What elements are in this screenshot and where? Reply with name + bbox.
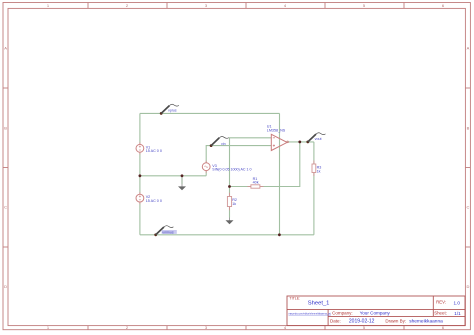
wire op-amp minus input to feedback node [230,138,272,187]
svg-text:1.0: 1.0 [454,300,461,305]
wire node to R1 left [230,186,251,188]
svg-text:1k: 1k [232,202,236,206]
probe vminus [154,226,173,237]
svg-text:3: 3 [205,3,208,8]
resistor R3 [312,161,316,177]
probe vin [210,136,229,147]
svg-text:C: C [4,205,7,210]
wire top rail net vplus [140,112,280,114]
wire left rail [139,113,141,234]
wire R3 branch [313,142,315,235]
svg-text:LM358_NS: LM358_NS [267,128,286,132]
ground G2 (below R2) [226,218,234,225]
junction node at output feedback [298,141,301,144]
junction node at op-amp V- on bottom rail [278,233,281,236]
voltage source V2 [136,192,144,204]
svg-text:1k: 1k [317,169,321,173]
svg-text:shemeikkaanna: shemeikkaanna [409,318,443,324]
wire op-amp output net vout [287,141,314,143]
voltage source V3 [202,161,210,173]
svg-text:B: B [467,126,470,131]
svg-text:TITLE:: TITLE: [289,296,300,300]
svg-text:vminus: vminus [162,230,174,234]
svg-text:D: D [4,284,7,289]
svg-text:Date:: Date: [330,318,341,323]
svg-text:A: A [4,46,7,51]
svg-text:A: A [467,46,470,51]
svg-text:5: 5 [363,3,366,8]
svg-text:40k: 40k [253,181,259,185]
svg-text:SIN(0 0.05 1000) AC 1 0: SIN(0 0.05 1000) AC 1 0 [212,168,251,172]
svg-text:Company:: Company: [332,310,353,315]
svg-text:B: B [4,126,7,131]
junction node at ground stem on middle rail [181,174,184,177]
svg-text:15 AC 0 0: 15 AC 0 0 [146,149,162,153]
wire V3 bottom stub [205,170,207,176]
title block (decorative) [287,296,465,326]
junction node at left rail / middle rail [139,174,142,177]
resistor R2 [227,193,231,210]
wire op-amp power rail vertical [279,113,281,234]
svg-text:2019-02-12: 2019-02-12 [349,318,375,324]
svg-text:4: 4 [284,3,287,8]
svg-text:Drawn By:: Drawn By: [385,318,406,323]
svg-text:6: 6 [442,3,445,8]
svg-text:1/1: 1/1 [454,311,461,316]
svg-text:vout: vout [315,137,322,141]
svg-text:vplus: vplus [168,109,177,113]
resistor R1 [247,185,263,188]
svg-text:Your Company: Your Company [360,310,391,315]
net label vminus [162,230,177,234]
svg-text:C: C [467,205,470,210]
svg-text:1: 1 [47,3,50,8]
svg-text:vin: vin [221,142,226,146]
svg-text:15 AC 0 0: 15 AC 0 0 [146,199,162,203]
wire bottom rail net vminus [140,234,314,236]
svg-text:D: D [467,284,470,289]
wire middle rail to ground [140,175,206,177]
junction node at R1/R2/inverting input [228,185,231,188]
wire R2 top lead [229,187,231,197]
svg-text:REV:: REV: [436,300,446,305]
wire R2 bottom to ground [229,207,231,218]
svg-text:Sheet_1: Sheet_1 [308,300,330,306]
wire V3 top to op-amp plus input net vin [206,146,271,164]
svg-text:2: 2 [126,3,129,8]
svg-text:Sheet:: Sheet: [434,311,447,316]
ground G1 (net gnd near V3) [178,176,186,191]
voltage source V1 [136,142,144,154]
svg-text:easyeda.com/editor/shemeikkaan: easyeda.com/editor/shemeikkaanna_prj [289,313,332,316]
probe vplus [160,104,179,115]
op-amp U1 [271,134,288,150]
wire R1 right to feedback vertical [260,142,300,187]
probe vout [306,133,325,144]
